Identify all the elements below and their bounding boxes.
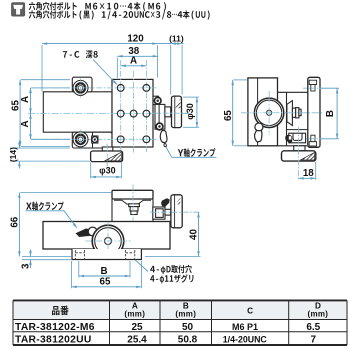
X knob shaft: [102, 147, 113, 151]
front: foot: [72, 249, 141, 260]
text 4-phiD mount: [150, 265, 192, 274]
side: bottom knob: [282, 151, 316, 161]
svg-text:18: 18: [303, 168, 314, 179]
svg-text:6.5: 6.5: [306, 322, 320, 333]
centerline horizontal hole row top: [32, 87, 159, 89]
front: bearing block: [153, 207, 165, 219]
leader 7-C: [93, 60, 117, 85]
svg-text:M6 P1: M6 P1: [232, 322, 258, 332]
dim 65 front: [71, 261, 73, 288]
top view: X body: [43, 92, 112, 132]
note line 1: [29, 2, 166, 11]
Y knob (phi30, edge-on): [172, 96, 182, 128]
side: clamp lever: [255, 131, 262, 143]
X knob hatch: [105, 152, 122, 161]
svg-text:(11): (11): [169, 33, 184, 43]
front: Y clamp lever dark: [161, 198, 170, 206]
front: X knob circle: [92, 225, 124, 257]
dim A top: [121, 65, 147, 67]
bolt top-left: [73, 80, 88, 95]
bolt bottom-left: [73, 132, 88, 147]
dim B front: [78, 261, 80, 278]
side: knob hub: [267, 110, 272, 115]
svg-text:TAR-381202UU: TAR-381202UU: [15, 335, 92, 346]
svg-text:(mm): (mm): [175, 310, 196, 319]
Y clamp lever: [160, 131, 167, 143]
svg-text:(mm): (mm): [124, 310, 145, 319]
side: big knob circle: [254, 98, 283, 127]
svg-text:A: A: [20, 96, 31, 103]
svg-text:25: 25: [131, 322, 143, 333]
side: mounting plate: [308, 77, 320, 147]
side: centerline vertical knob: [268, 91, 270, 135]
side: bottom knob hatch: [300, 152, 314, 160]
front: centerline vertical upper: [132, 185, 134, 222]
note line 2: [29, 10, 210, 19]
table: [13, 301, 347, 319]
text X axis clamp: [26, 202, 64, 211]
svg-text:B: B: [100, 266, 107, 277]
side: cbore centerlines: [303, 87, 322, 89]
text Y axis clamp: [178, 148, 216, 157]
side: clamp screw dark: [285, 135, 292, 143]
leader X axis clamp: [26, 210, 65, 212]
front view: top plate: [112, 190, 153, 199]
svg-text:A: A: [20, 120, 31, 127]
dim (14) left: [18, 141, 20, 149]
svg-text:7: 7: [311, 335, 317, 346]
dim 40 front: [145, 255, 201, 257]
front: Y shaft: [165, 209, 171, 215]
svg-text:B: B: [325, 110, 336, 117]
side: clamp block: [289, 133, 306, 143]
Y screw block top: [153, 96, 159, 104]
front: Y knob centerline: [150, 211, 201, 213]
note icon bolt: [12, 3, 25, 16]
X knob centerline: [106, 144, 108, 167]
dim 18 side: [299, 177, 316, 179]
svg-text:C: C: [247, 307, 253, 316]
svg-text:50.8: 50.8: [178, 335, 198, 346]
front: mid block sides: [111, 199, 113, 221]
centerline vertical hole col right: [145, 60, 147, 152]
dim 65 side: [232, 80, 234, 146]
side: carriage edge: [286, 92, 288, 146]
dim 66 front: [18, 193, 20, 257]
front: X clamp lever: [76, 228, 93, 237]
svg-text:120: 120: [127, 33, 144, 44]
text 4-phi11 zaguri: [150, 274, 193, 283]
dim phi30 bottom: [90, 163, 92, 179]
front: leadscrew end: [129, 204, 140, 207]
dim phi30 right: [183, 96, 199, 98]
dim (11): [158, 43, 184, 45]
dim 3 front: [30, 250, 32, 257]
svg-text:A: A: [130, 56, 137, 67]
centerline vertical hole col left: [120, 60, 122, 152]
Y knob hatch: [175, 98, 180, 109]
text 7-C fukasa 8: [63, 50, 98, 58]
X clamp screw: [92, 136, 98, 143]
table header hinban: [52, 306, 69, 316]
centerline vertical plate center: [133, 71, 135, 154]
svg-text:φ30: φ30: [99, 165, 115, 175]
side: horn flange: [287, 101, 293, 126]
Y bracket: [155, 104, 165, 129]
dim B side: [336, 88, 338, 139]
top view: carriage arm top: [72, 77, 92, 92]
svg-text:65: 65: [223, 110, 234, 121]
front: X body: [43, 222, 170, 250]
svg-text:50: 50: [182, 322, 194, 333]
dim 38: [117, 55, 158, 57]
side: knob shaft bottom: [294, 146, 305, 151]
svg-text:65: 65: [100, 277, 111, 288]
leader Y axis clamp: [166, 147, 172, 158]
svg-text:3: 3: [20, 263, 31, 269]
Y top screw: [154, 97, 161, 104]
Y shaft: [165, 107, 171, 117]
side: cbore bottom: [311, 135, 315, 142]
side: Y shaft end: [292, 108, 295, 117]
svg-text:(mm): (mm): [308, 310, 329, 319]
dim 65 left: [19, 80, 21, 147]
svg-text:66: 66: [10, 216, 21, 227]
leader mounting holes: [135, 260, 148, 272]
svg-text:TAR-381202-M6: TAR-381202-M6: [15, 322, 95, 333]
svg-text:25.4: 25.4: [127, 335, 147, 346]
svg-text:(14): (14): [8, 147, 18, 162]
svg-text:φ30: φ30: [185, 103, 195, 119]
side: cbore top: [309, 80, 316, 84]
centerline horizontal main axis: [28, 113, 190, 115]
side: bottom knob centerline: [298, 127, 300, 180]
side: centerline horizontal: [241, 112, 322, 114]
dim 120: [42, 43, 158, 45]
side: step line: [278, 91, 308, 93]
centerline horizontal hole row bottom: [32, 138, 159, 140]
X knob (phi30 bar): [91, 151, 123, 162]
front: dovetail: [114, 200, 133, 204]
Y clamp screw lower: [156, 123, 163, 130]
top view: moving plate: [112, 79, 153, 147]
dim A A left: [30, 88, 32, 139]
front: Y knob edge-on: [171, 195, 182, 228]
side view: body: [248, 78, 278, 146]
front: knob crosshair: [86, 240, 131, 242]
front: foot hidden holes: [74, 250, 76, 259]
7 counterbore holes: [117, 85, 124, 92]
top view: carriage arm bottom: [72, 132, 112, 148]
front: Y knob hatch: [175, 198, 180, 205]
svg-text:40: 40: [188, 229, 199, 240]
svg-text:1/4-20UNC: 1/4-20UNC: [223, 335, 268, 345]
side: lever pivot: [255, 123, 263, 131]
